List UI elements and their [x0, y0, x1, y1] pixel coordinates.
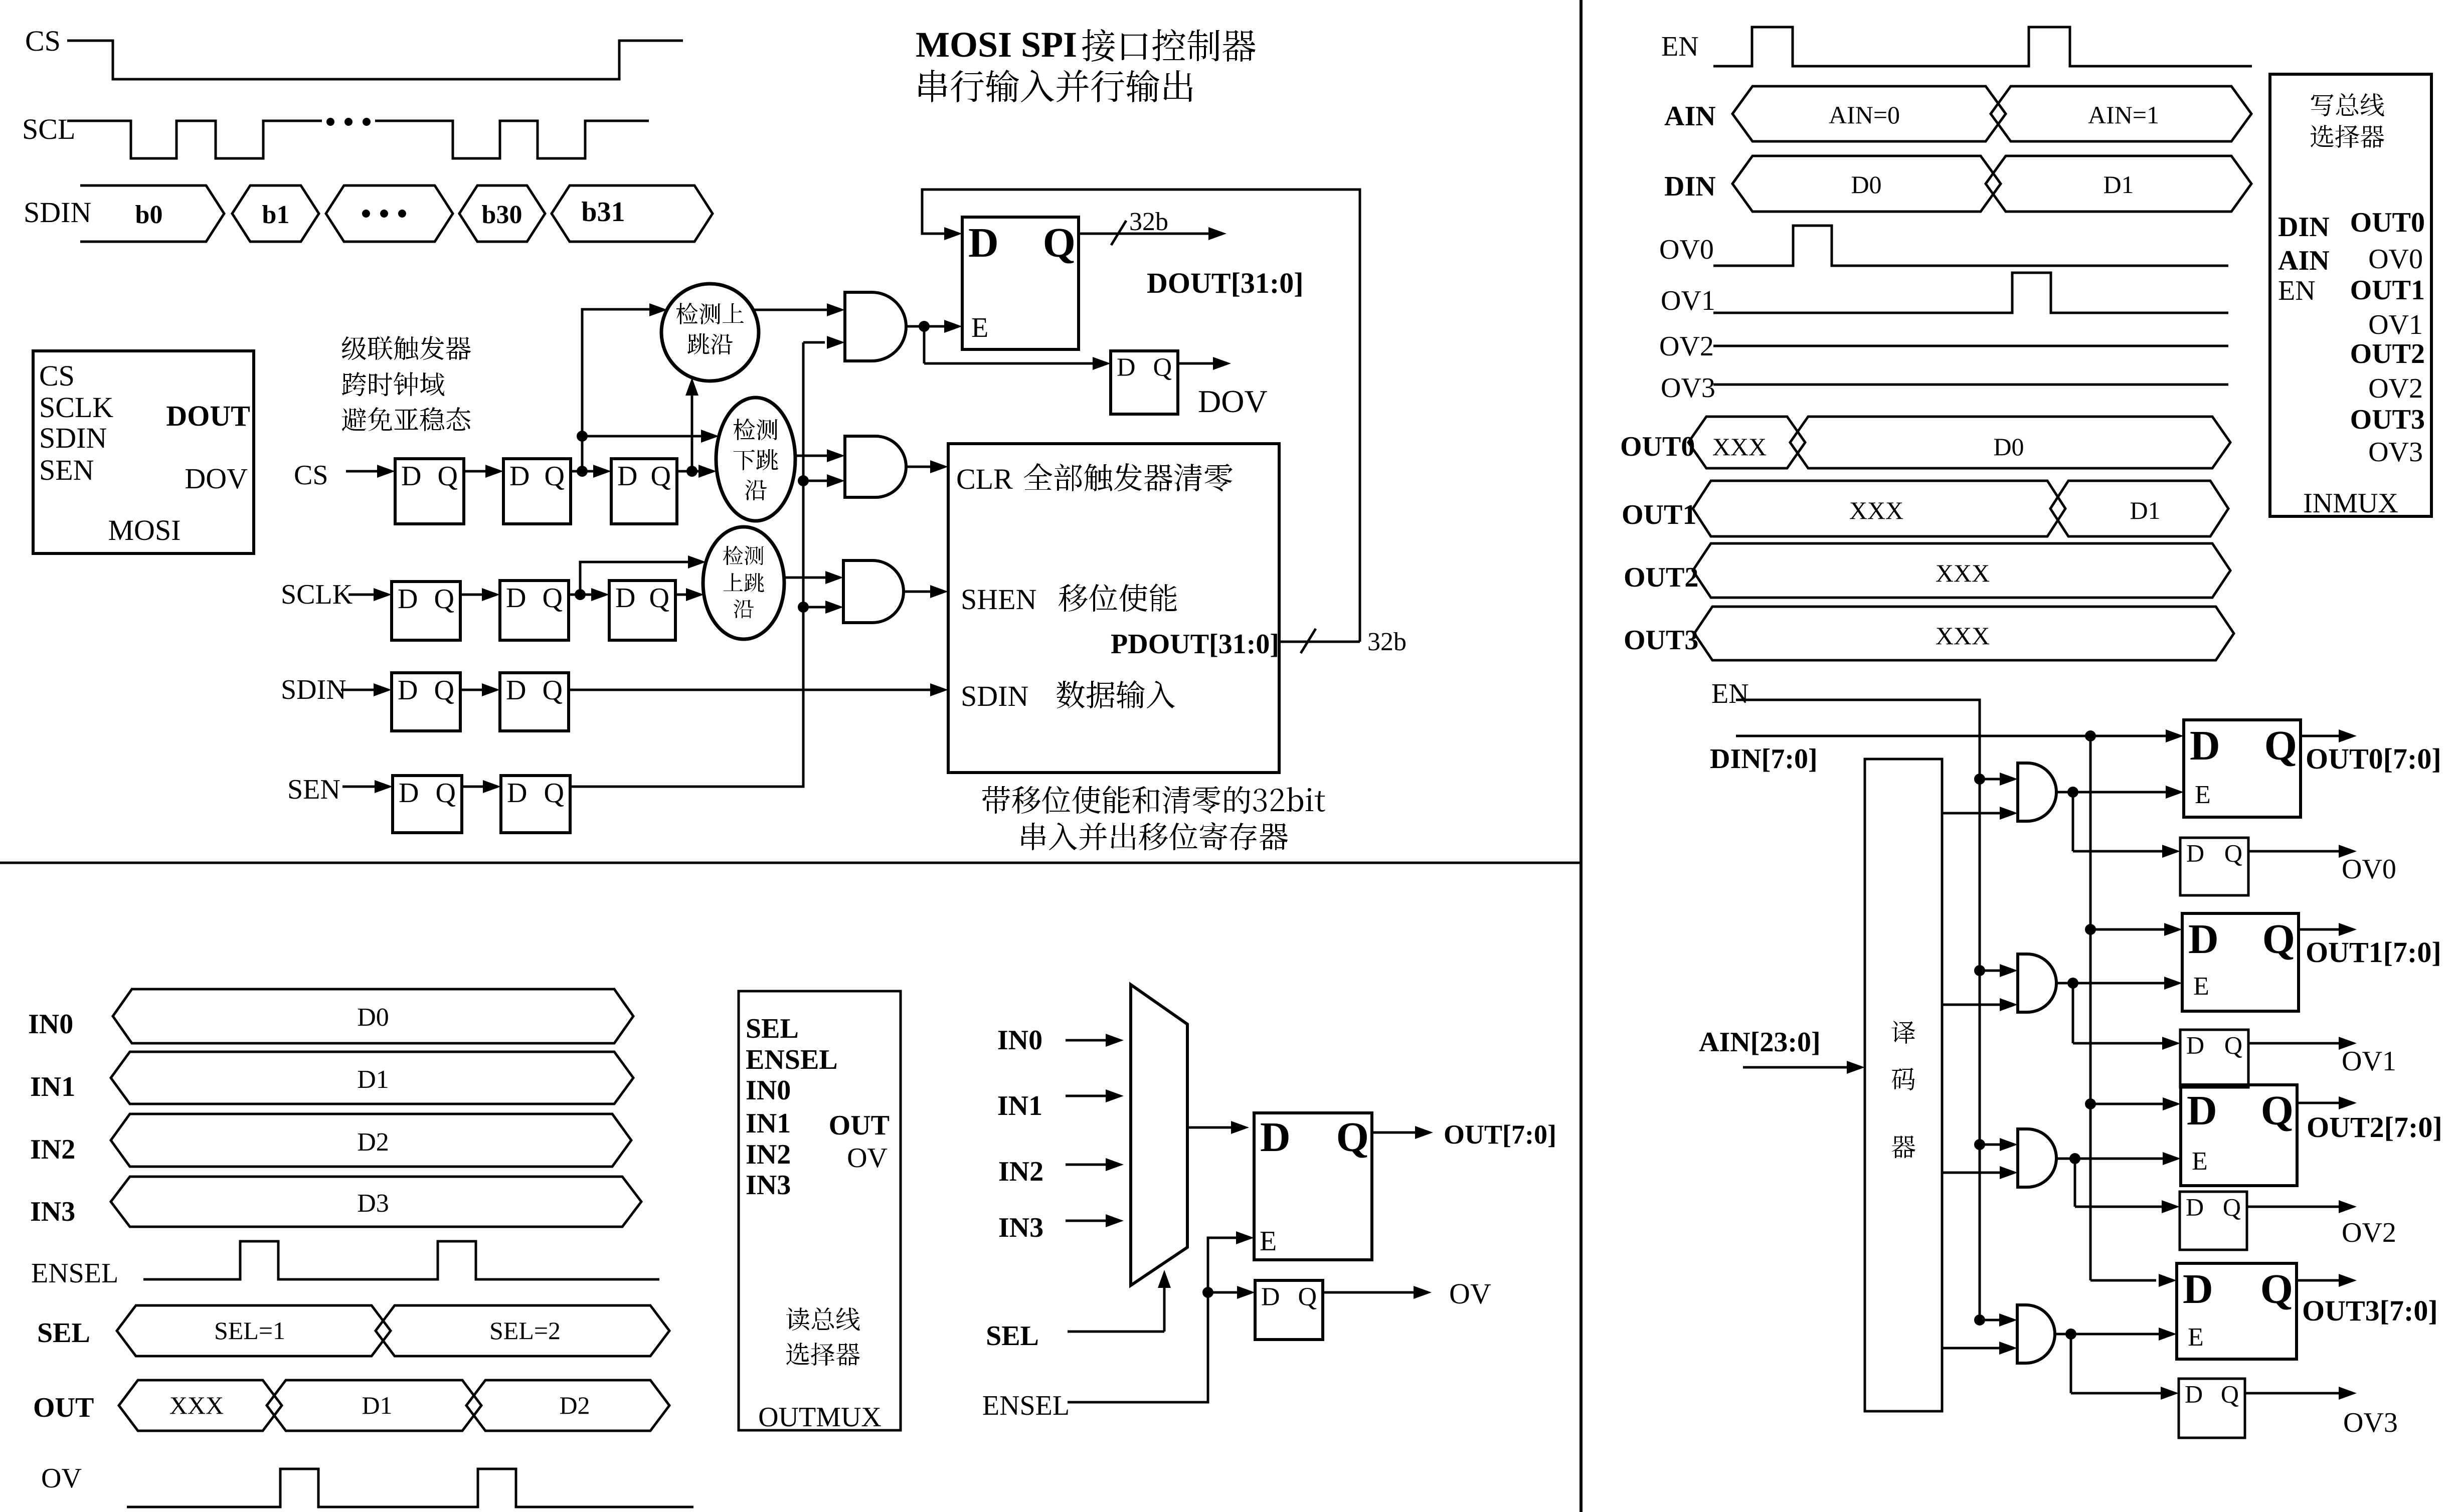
- and-gate G7: [2017, 1305, 2055, 1363]
- wire PDOUT feedback to D input: [922, 190, 1360, 642]
- svg-text:XXX: XXX: [169, 1391, 224, 1419]
- svg-text:MOSI: MOSI: [108, 514, 181, 546]
- bus OUT3 = XXX: [1694, 607, 2234, 660]
- svg-text:32b: 32b: [1129, 208, 1168, 236]
- wire DOV output: [1178, 362, 1217, 365]
- svg-text:SEL=2: SEL=2: [489, 1316, 561, 1345]
- svg-text:D: D: [1117, 353, 1136, 382]
- waveform SCL: [67, 121, 322, 158]
- svg-text:IN2: IN2: [30, 1134, 75, 1165]
- wire ENSEL riser to E and OV flip-flop: [1068, 1238, 1237, 1402]
- svg-text:E: E: [971, 312, 988, 343]
- svg-text:DIN: DIN: [1664, 171, 1716, 202]
- wire G4 to OV0 flip-flop: [2072, 792, 2074, 851]
- wire G2 output to CLR: [906, 466, 918, 468]
- svg-text:D: D: [2185, 1380, 2203, 1408]
- wire G6 to OV2 flip-flop: [2074, 1159, 2076, 1207]
- wire SCLK-rise-detect to G3: [784, 577, 829, 579]
- wire CS to U1: [346, 470, 381, 473]
- svg-text:EN: EN: [2278, 275, 2316, 306]
- svg-text:Q: Q: [2262, 916, 2295, 963]
- svg-text:XXX: XXX: [1936, 622, 1990, 650]
- wire DIN to OUT3 register D: [2090, 1279, 2156, 1282]
- svg-text:Q: Q: [544, 778, 564, 809]
- bus AIN=1: [1991, 86, 2251, 141]
- waveform ENSEL: [143, 1241, 659, 1279]
- wire IN2 to mux: [1066, 1164, 1110, 1166]
- junction DIN tap 2: [2085, 1098, 2096, 1109]
- wire EN to G6: [1980, 1144, 2004, 1146]
- svg-text:SHEN: SHEN: [961, 583, 1036, 616]
- svg-text:AIN: AIN: [1664, 101, 1716, 132]
- svg-text:E: E: [1260, 1226, 1277, 1257]
- svg-text:D2: D2: [357, 1128, 389, 1157]
- flip-flop U3 (CS sync 3): [611, 459, 677, 524]
- svg-text:SEN: SEN: [39, 454, 94, 486]
- multiplexer MUX1: [1131, 985, 1187, 1285]
- wire U3.Q to fall-detect: [677, 470, 703, 473]
- svg-text:D: D: [2188, 916, 2219, 963]
- svg-text:E: E: [2188, 1323, 2204, 1352]
- and-gate G4: [2018, 763, 2056, 821]
- svg-text:b0: b0: [135, 201, 163, 229]
- svg-text:E: E: [2192, 1147, 2208, 1176]
- waveform OV1: [1713, 273, 2228, 313]
- waveform EN: [1713, 27, 2252, 66]
- svg-text:CS: CS: [25, 25, 61, 57]
- wire DIN to OUT0 register D: [1736, 735, 2170, 737]
- svg-text:D: D: [2186, 1193, 2204, 1221]
- svg-text:DIN: DIN: [2278, 212, 2330, 243]
- wire G6 to OUT2 enable: [2056, 1158, 2075, 1160]
- svg-text:SDIN: SDIN: [961, 680, 1028, 712]
- svg-text:OV3: OV3: [2368, 437, 2423, 468]
- wire U8.Q to shift register SDIN: [569, 689, 934, 691]
- wire AIN to decoder: [1743, 1066, 1851, 1069]
- wire G4 to OUT0 enable: [2056, 791, 2073, 794]
- svg-text:DIN[7:0]: DIN[7:0]: [1710, 743, 1818, 775]
- junction EN tap 3: [1974, 1314, 1985, 1326]
- junction on G4 output: [2067, 787, 2078, 798]
- panel divider vertical: [1580, 0, 1583, 1512]
- svg-text:Q: Q: [543, 583, 563, 614]
- svg-text:SEN: SEN: [287, 774, 340, 805]
- wire mux output to OUT register D: [1187, 1126, 1235, 1129]
- register OUT[7:0] flip-flop: [1254, 1113, 1372, 1260]
- svg-text:Q: Q: [651, 461, 671, 492]
- svg-text:OUT2: OUT2: [2350, 338, 2425, 369]
- waveform OV: [127, 1469, 693, 1507]
- edge detector: detect rising edge of SCLK: [703, 527, 784, 639]
- wire G3 output to SHEN: [904, 591, 918, 593]
- svg-text:D: D: [506, 675, 526, 706]
- block 32bit shift register: [948, 444, 1279, 773]
- flip-flop U4 (SCLK sync 1): [392, 582, 460, 640]
- svg-text:XXX: XXX: [1712, 433, 1767, 461]
- svg-text:D: D: [1261, 1282, 1280, 1311]
- junction EN tap 0: [1974, 774, 1985, 785]
- junction on U3.Q: [686, 466, 697, 477]
- bus DIN = D0: [1732, 156, 2001, 212]
- svg-text:SCLK: SCLK: [281, 579, 353, 610]
- svg-text:SCLK: SCLK: [39, 391, 113, 424]
- bus OUT = D1: [267, 1380, 481, 1431]
- svg-text:PDOUT[31:0]: PDOUT[31:0]: [1111, 629, 1279, 660]
- flip-flop DOV: [1111, 351, 1178, 414]
- svg-text:32b: 32b: [1367, 628, 1407, 656]
- wire SEN riser to G3 input 2: [803, 606, 829, 609]
- svg-text:b31: b31: [581, 197, 625, 228]
- junction on G7 output: [2065, 1329, 2076, 1340]
- svg-text:E: E: [2195, 781, 2211, 809]
- wire EN to G7: [1980, 1319, 2003, 1321]
- junction on G5 output: [2067, 978, 2078, 989]
- wire OUT1 register output: [2299, 928, 2343, 931]
- junction DIN riser top: [2085, 730, 2096, 741]
- svg-text:DOUT: DOUT: [166, 400, 250, 432]
- and-gate G2: [845, 436, 906, 497]
- wire SDIN to U7: [341, 689, 378, 691]
- svg-text:D: D: [2190, 722, 2220, 769]
- bus OUT = XXX: [119, 1380, 282, 1431]
- wire DIN to OUT1 register D: [2090, 928, 2168, 931]
- svg-text:D1: D1: [2103, 170, 2134, 199]
- bus cell ellipsis: [326, 185, 453, 242]
- block INMUX write bus selector: [2270, 74, 2431, 516]
- svg-text:Q: Q: [434, 584, 454, 615]
- junction on CS Q2: [577, 466, 588, 477]
- svg-text:OUT: OUT: [829, 1110, 890, 1141]
- junction on ENSEL riser: [1202, 1287, 1213, 1298]
- svg-text:OV1: OV1: [2368, 309, 2423, 340]
- svg-text:D: D: [401, 461, 421, 492]
- svg-text:Q: Q: [543, 675, 563, 706]
- svg-text:XXX: XXX: [1849, 496, 1903, 524]
- svg-text:IN0: IN0: [746, 1075, 791, 1106]
- waveform OV3: [1713, 384, 2228, 386]
- svg-text:ENSEL: ENSEL: [982, 1390, 1070, 1421]
- svg-text:INMUX: INMUX: [2303, 488, 2398, 519]
- svg-text:D2: D2: [559, 1391, 590, 1419]
- bus OUT0 = XXX: [1688, 417, 1805, 468]
- svg-text:SDIN: SDIN: [281, 674, 346, 705]
- svg-text:OUT: OUT: [33, 1392, 94, 1423]
- waveform OV2: [1713, 345, 2228, 347]
- svg-text:OUT1: OUT1: [2350, 275, 2425, 306]
- ellipsis dots on SCL: [326, 118, 334, 126]
- svg-text:OV1: OV1: [2342, 1046, 2396, 1077]
- junction SEN riser at G2: [798, 475, 809, 486]
- svg-text:OV: OV: [41, 1463, 82, 1494]
- svg-text:b30: b30: [482, 201, 522, 229]
- panel divider horizontal: [0, 862, 1581, 864]
- svg-text:SEL=1: SEL=1: [214, 1316, 285, 1345]
- title line 2: serial-in parallel-out: [919, 70, 1192, 102]
- svg-text:AIN[23:0]: AIN[23:0]: [1699, 1027, 1821, 1058]
- wire G7 to OUT3 enable: [2055, 1333, 2071, 1336]
- svg-text:Q: Q: [2264, 722, 2297, 769]
- flip-flop U2 (CS sync 2): [503, 459, 571, 524]
- svg-text:Q: Q: [2221, 1380, 2239, 1408]
- svg-text:AIN: AIN: [2278, 245, 2330, 276]
- bus OUT = D2: [466, 1380, 669, 1431]
- flip-flop OV0: [2180, 838, 2248, 895]
- flip-flop OV: [1255, 1280, 1323, 1340]
- bus AIN=0: [1732, 86, 2006, 141]
- svg-text:SEL: SEL: [746, 1013, 799, 1044]
- block OUTMUX read bus selector: [739, 991, 901, 1430]
- register DOUT[31:0] flip-flop: [962, 217, 1079, 349]
- svg-text:Q: Q: [2224, 839, 2242, 867]
- junction EN tap 1: [1974, 965, 1985, 976]
- svg-text:E: E: [2193, 972, 2209, 1001]
- svg-text:IN3: IN3: [30, 1196, 75, 1227]
- svg-text:IN1: IN1: [30, 1071, 75, 1102]
- wire G1 output to DOUT register enable: [906, 325, 924, 328]
- svg-text:OUT1[7:0]: OUT1[7:0]: [2306, 936, 2441, 969]
- bus cell b0: [80, 185, 224, 242]
- wire OUT2 register output: [2297, 1102, 2343, 1104]
- wire G1 output to DOV flip-flop: [923, 326, 926, 363]
- bus slash 32b on PDOUT: [1301, 629, 1316, 653]
- svg-text:CS: CS: [294, 460, 328, 491]
- svg-text:OUT3[7:0]: OUT3[7:0]: [2302, 1294, 2438, 1327]
- wire U5.Q to U6.D: [569, 594, 595, 596]
- wire OV2 output: [2247, 1206, 2343, 1208]
- wire IN0 to mux: [1066, 1039, 1110, 1042]
- wire decoder out 2 to G6: [1942, 1172, 2004, 1174]
- wire U10.Q SEN enable riser: [570, 342, 803, 787]
- wire U4.Q to U5.D: [460, 594, 486, 596]
- wire decoder out 0 to G4: [1942, 812, 2004, 815]
- bus cell b30: [459, 185, 545, 242]
- svg-text:Q: Q: [2260, 1266, 2293, 1312]
- flip-flop U10 (SEN sync 2): [501, 776, 570, 833]
- wire rise-detect to G1: [753, 309, 831, 311]
- svg-text:OUT0: OUT0: [1620, 431, 1695, 462]
- svg-text:D: D: [2187, 1087, 2217, 1134]
- svg-text:b1: b1: [262, 201, 290, 229]
- svg-text:OV2: OV2: [2342, 1217, 2396, 1248]
- svg-text:OV2: OV2: [2368, 373, 2423, 404]
- bus cell b31: [552, 185, 713, 242]
- wire SEL to mux select: [1068, 1331, 1164, 1333]
- wire U6.Q to SCLK rise-detect: [675, 594, 690, 596]
- block decoder: [1865, 759, 1942, 1411]
- junction SEN riser at G3: [798, 602, 809, 613]
- flip-flop U7 (SDIN sync 1): [392, 673, 460, 731]
- wire fall-detect to G2: [795, 455, 831, 457]
- svg-text:D: D: [2186, 1031, 2204, 1059]
- svg-text:D: D: [398, 584, 418, 615]
- bus IN1 = D1: [111, 1052, 633, 1104]
- svg-text:IN0: IN0: [997, 1025, 1042, 1056]
- junction DIN tap 1: [2085, 924, 2096, 935]
- svg-text:D1: D1: [362, 1391, 392, 1419]
- svg-text:Q: Q: [438, 461, 458, 492]
- svg-text:D: D: [2186, 839, 2204, 867]
- bus OUT2 = XXX: [1693, 543, 2230, 598]
- wire SEN riser to G2 input 2: [803, 480, 831, 482]
- svg-text:SEL: SEL: [37, 1317, 90, 1349]
- svg-text:OV3: OV3: [2343, 1407, 2398, 1438]
- svg-text:Q: Q: [545, 461, 565, 492]
- svg-text:Q: Q: [2224, 1031, 2242, 1059]
- svg-text:IN3: IN3: [746, 1170, 791, 1201]
- svg-text:Q: Q: [434, 675, 454, 706]
- svg-text:D: D: [2183, 1266, 2213, 1312]
- wire OV3 output: [2245, 1392, 2343, 1395]
- wire PDOUT to feedback riser: [1279, 641, 1360, 643]
- flip-flop U9 (SEN sync 1): [393, 776, 462, 833]
- svg-text:D: D: [399, 778, 419, 809]
- svg-text:OV1: OV1: [1661, 285, 1715, 316]
- wire DIN to OUT2 register D: [2090, 1103, 2167, 1105]
- svg-text:OV3: OV3: [1661, 372, 1715, 404]
- and-gate G5: [2018, 954, 2056, 1012]
- wire EN to G5: [1980, 970, 2004, 972]
- caption read bus selector: [786, 1307, 860, 1331]
- junction on G1 output: [919, 321, 930, 332]
- caption: 32bit serial-in parallel-out shift register with shift enable and clear: [982, 786, 1325, 814]
- flip-flop U1 (CS sync 1): [395, 459, 464, 524]
- caption write bus selector: [2311, 93, 2384, 116]
- svg-text:IN3: IN3: [998, 1212, 1043, 1243]
- bus OUT1 = D1: [2050, 481, 2228, 536]
- svg-text:D0: D0: [1993, 433, 2024, 461]
- wire U7.Q to U8.D: [460, 689, 486, 691]
- flip-flop OV2: [2180, 1192, 2247, 1250]
- svg-text:OUTMUX: OUTMUX: [758, 1402, 882, 1433]
- svg-text:Q: Q: [2261, 1087, 2294, 1134]
- register OUT0[7:0] flip-flop: [2184, 720, 2301, 817]
- bus OUT1 = XXX: [1693, 481, 2065, 536]
- svg-text:SCL: SCL: [22, 113, 75, 145]
- wire IN1 to mux: [1066, 1095, 1110, 1097]
- wire OUT register Q output: [1372, 1131, 1419, 1134]
- svg-text:OV0: OV0: [1659, 234, 1714, 265]
- block MOSI: [33, 351, 254, 553]
- wire OV flip-flop output: [1323, 1291, 1418, 1294]
- svg-text:MOSI SPI: MOSI SPI: [916, 25, 1077, 65]
- register OUT1[7:0] flip-flop: [2182, 913, 2299, 1011]
- flip-flop U5 (SCLK sync 2): [500, 581, 569, 640]
- svg-text:DOV: DOV: [1198, 384, 1268, 419]
- svg-text:EN: EN: [1661, 31, 1699, 62]
- svg-text:Q: Q: [1298, 1282, 1317, 1311]
- edge detector: detect rising edge of CS: [661, 284, 759, 381]
- junction on Q2 riser: [577, 431, 588, 442]
- svg-text:OUT[7:0]: OUT[7:0]: [1444, 1119, 1556, 1150]
- wire U5.Q riser to SCLK rise-detect: [580, 562, 691, 595]
- register OUT3[7:0] flip-flop: [2177, 1263, 2297, 1359]
- svg-text:D: D: [398, 675, 418, 706]
- svg-text:D0: D0: [1851, 170, 1881, 199]
- wire EN to G4: [1980, 778, 2004, 781]
- wire decoder out 1 to G5: [1942, 1004, 2004, 1006]
- svg-text:SDIN: SDIN: [39, 422, 107, 454]
- svg-text:OUT2: OUT2: [1624, 562, 1698, 593]
- flip-flop U6 (SCLK sync 3): [609, 581, 675, 640]
- svg-text:Q: Q: [649, 583, 669, 614]
- wire decoder out 3 to G7: [1942, 1347, 2003, 1350]
- note: cascaded flip-flops cross clock domain avoid metastability: [342, 336, 471, 360]
- svg-text:OV0: OV0: [2368, 244, 2423, 275]
- wire U2.Q to U3.D: [571, 470, 597, 473]
- flip-flop U8 (SDIN sync 2): [500, 673, 569, 731]
- svg-text:OV2: OV2: [1659, 331, 1714, 362]
- svg-text:D: D: [615, 583, 635, 614]
- junction on G6 output: [2069, 1153, 2080, 1164]
- svg-text:OUT0[7:0]: OUT0[7:0]: [2306, 742, 2441, 775]
- wire OUT3 register output: [2297, 1279, 2343, 1282]
- svg-text:ENSEL: ENSEL: [31, 1258, 118, 1289]
- junction EN tap 2: [1974, 1139, 1985, 1150]
- wire IN3 to mux: [1066, 1220, 1110, 1222]
- and-gate G6: [2018, 1129, 2056, 1187]
- svg-text:Q: Q: [1336, 1114, 1369, 1161]
- bus OUT0 = D0: [1790, 417, 2230, 468]
- svg-text:SDIN: SDIN: [24, 196, 91, 229]
- svg-text:D: D: [509, 461, 530, 492]
- bus SEL=2: [376, 1305, 669, 1356]
- flip-flop OV3: [2179, 1379, 2245, 1438]
- svg-text:CS: CS: [39, 359, 75, 392]
- svg-text:D3: D3: [357, 1189, 389, 1218]
- svg-text:Q: Q: [1153, 353, 1172, 382]
- svg-text:IN1: IN1: [746, 1108, 791, 1139]
- svg-text:OUT0: OUT0: [2350, 207, 2425, 238]
- register OUT2[7:0] flip-flop: [2181, 1085, 2297, 1186]
- svg-text:IN2: IN2: [746, 1139, 791, 1170]
- wire Q2 riser to rise-detect and fall-detect: [582, 309, 652, 471]
- svg-text:OUT3: OUT3: [1624, 625, 1698, 656]
- and-gate G1: [845, 292, 906, 361]
- svg-text:D: D: [506, 583, 526, 614]
- svg-text:OV: OV: [1449, 1277, 1491, 1310]
- svg-text:IN1: IN1: [997, 1090, 1042, 1121]
- svg-text:OUT2[7:0]: OUT2[7:0]: [2307, 1111, 2442, 1144]
- wire G7 to OV3 flip-flop: [2070, 1334, 2072, 1393]
- wire OV1 output: [2248, 1042, 2343, 1045]
- bus IN2 = D2: [111, 1114, 631, 1167]
- svg-text:OV0: OV0: [2342, 854, 2396, 885]
- wire OV0 output: [2248, 850, 2343, 853]
- svg-text:D1: D1: [2130, 496, 2160, 524]
- svg-text:D1: D1: [357, 1065, 389, 1094]
- wire DIN riser: [2089, 736, 2092, 1280]
- and-gate G3: [843, 560, 904, 623]
- svg-text:D: D: [507, 778, 527, 809]
- bus cell b1: [232, 185, 319, 242]
- bus IN0 = D0: [113, 989, 633, 1043]
- svg-text:Q: Q: [1043, 220, 1076, 266]
- flip-flop OV1: [2180, 1030, 2248, 1087]
- bus SEL=1: [117, 1305, 391, 1356]
- svg-text:IN2: IN2: [998, 1156, 1043, 1187]
- waveform OV0: [1713, 226, 2228, 266]
- wire ENSEL riser to OV flip-flop D: [1208, 1291, 1241, 1294]
- svg-text:XXX: XXX: [1936, 559, 1990, 587]
- wire SEN riser to G1 input 2: [803, 341, 825, 344]
- wire OUT0 register output: [2301, 735, 2343, 737]
- edge detector: detect falling edge of CS: [716, 398, 795, 521]
- bus IN3 = D3: [111, 1177, 641, 1227]
- svg-text:DOV: DOV: [185, 462, 248, 495]
- wire U9.Q to U10.D: [462, 786, 487, 788]
- wire G5 to OUT1 enable: [2056, 982, 2073, 985]
- svg-text:AIN=1: AIN=1: [2088, 101, 2159, 129]
